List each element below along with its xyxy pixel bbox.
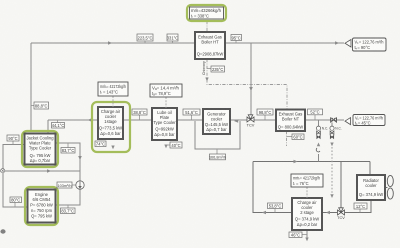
arrow NC drop1 up (317, 143, 320, 147)
paper texture (0, 0, 1, 1)
label 103 m3/h near pump (57, 182, 76, 188)
wire HT boiler return drop x=251 (250, 43, 252, 117)
green highlighted: Jacket Cooling Water Plate Type Cooler (22, 131, 58, 167)
arrow on LT return line (294, 160, 298, 164)
flow arrows (47, 41, 339, 241)
label 331C on HT line (167, 34, 178, 43)
wire exhaust into HT boiler top (206, 21, 208, 32)
label 88,8C left column (31, 102, 49, 109)
cooler: Generator cooler (203, 109, 230, 134)
label 98,8C before NT boiler (257, 109, 273, 120)
wire TCV2 feed from return line (340, 162, 342, 209)
label 83,7C engine outlet (61, 205, 76, 214)
wire LT main line y=120 (48, 119, 344, 121)
wire CAC2 bottom drain (306, 230, 308, 238)
wire jacket cooler right to pump column (55, 143, 80, 205)
wire CAC2 supply left loop (253, 162, 292, 213)
arrow CAC2 air out down (305, 238, 308, 242)
green highlighted: Engine (25, 187, 58, 225)
pump P1 circle with down arrow (76, 181, 84, 189)
arrow down on pump column (78, 156, 82, 160)
wire TCV2 to CAC2 (322, 212, 337, 214)
label 235C on exhaust duct (207, 66, 225, 72)
arrow on LT line toward jacket cooler (88, 118, 92, 122)
outlet triangle mid right (345, 118, 351, 125)
label 80C engine inlet (10, 197, 22, 207)
wire exhaust HT boiler to NT boiler (207, 59, 287, 110)
label 44,1C (52, 120, 65, 128)
exhaust gas duct dash-dot lines (207, 21, 287, 146)
arrow lube oil out down (164, 145, 167, 149)
label 46C CAC2 air out (289, 232, 307, 238)
valve TCV1 three-way (247, 115, 254, 122)
wire NC drop 1 (318, 120, 320, 126)
label charge air data above CAC2 (291, 174, 323, 198)
arrow on HT top line (108, 41, 112, 45)
wire radiator outlet to TCV2 (345, 200, 371, 213)
valve NC1 (normally closed) with circle actuator (316, 126, 320, 152)
label 38,8C between CAC1 and lube cooler (132, 109, 147, 120)
wire radiator feed (369, 162, 371, 176)
wire mixing line y=171 (5, 170, 81, 172)
label 83,7C upper (61, 143, 75, 153)
cooler: Radiator cooler (357, 175, 385, 200)
arrow exhaust duct mid (205, 78, 208, 82)
label 12C radiator outlet (354, 203, 367, 213)
outlet label top right (353, 38, 387, 51)
label 166,8 m3/h bypass (209, 149, 226, 160)
label 90C (7, 135, 19, 145)
node circle with mark on jacket outlet line (1, 169, 5, 173)
wire left vertical from top line to jacket cooler (30, 43, 32, 131)
label 51,6C (183, 109, 200, 120)
outlet label mid right (353, 115, 385, 126)
valve NC2 with circle actuator (330, 126, 334, 138)
arrow down on HT boiler return drop (249, 87, 253, 91)
label 74C air out CAC1 (95, 141, 106, 147)
arrow CAC1 air out down (111, 146, 114, 150)
label 52C after NT boiler (308, 109, 323, 120)
label 95C right of HT boiler (231, 35, 242, 44)
arrow right on mixing line (47, 169, 51, 173)
valve on LT line before outlet (331, 118, 337, 122)
green highlighted exhaust data label (187, 5, 226, 21)
label 53,8C CAC2 inlet (268, 203, 283, 213)
boiler U2: Exhaust Gas Boiler NT (276, 110, 305, 132)
arrow into generator cooler right (234, 119, 238, 123)
outlet triangle top right (345, 40, 351, 48)
wire NC drop 2 upper (331, 123, 333, 127)
label charge air data above CAC1 (98, 82, 128, 107)
arrow NC drop2 down (330, 143, 333, 147)
label 223,5C on HT line (137, 34, 153, 43)
label 40C lube oil out (166, 142, 182, 148)
scan ink blob bottom left (0, 229, 5, 233)
green highlighted: Charge air cooler 1 stage (92, 102, 130, 152)
arrow into CAC2 right (326, 211, 330, 215)
cooler: Lube oil Plate Type Cooler (152, 108, 177, 140)
arrow to right outlet top (335, 41, 339, 45)
wire LT return line y=161.5 (253, 161, 370, 163)
cooler: Charge air cooler 2 stage (292, 198, 322, 230)
arrow into CAC2 left (262, 211, 266, 215)
label 60C exhaust out (287, 134, 305, 140)
wire jacket cooler left outlet to engine inlet (3, 145, 27, 208)
wire HT top line to boiler and outlet (31, 42, 344, 44)
boiler U1: Exhaust Gas Boiler HT (195, 32, 225, 59)
wire LT drop into jacket cooler top (47, 120, 49, 134)
fan of radiator cooler (385, 175, 393, 199)
wire exhaust NT boiler outlet (286, 131, 288, 146)
valve TCV2 three-way near radiator (338, 208, 345, 215)
arrow NC drop2 end down (330, 194, 333, 198)
wire NC drop 2 lower (331, 147, 333, 196)
wire generator cooler bypass U (195, 121, 240, 149)
label lube oil data above cooler (150, 84, 182, 108)
